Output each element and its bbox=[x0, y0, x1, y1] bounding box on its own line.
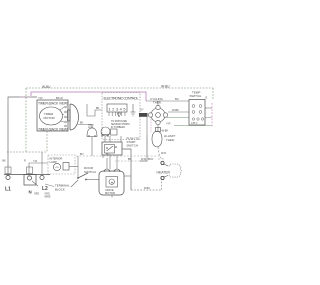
svg-text:MOTOR: MOTOR bbox=[44, 116, 56, 120]
svg-text:BK: BK bbox=[96, 107, 100, 110]
svg-text:SWITCH: SWITCH bbox=[190, 94, 202, 98]
svg-text:W-BK: W-BK bbox=[172, 108, 179, 112]
svg-text:THER.: THER. bbox=[153, 101, 162, 105]
svg-text:N: N bbox=[29, 190, 32, 195]
svg-text:SWITCH: SWITCH bbox=[84, 170, 96, 174]
svg-text:Y-R: Y-R bbox=[166, 122, 170, 126]
svg-text:BCO: BCO bbox=[148, 158, 153, 161]
svg-text:E: E bbox=[206, 96, 208, 100]
svg-text:IN TUMBLER: IN TUMBLER bbox=[111, 127, 125, 129]
svg-text:TIMER (BACK VIEW): TIMER (BACK VIEW) bbox=[38, 128, 68, 132]
svg-text:GRD: GRD bbox=[45, 194, 50, 196]
svg-text:LAMP: LAMP bbox=[50, 160, 58, 164]
svg-text:W-BK: W-BK bbox=[162, 129, 169, 133]
svg-text:BK: BK bbox=[128, 158, 132, 161]
svg-text:R-BU: R-BU bbox=[144, 187, 150, 190]
svg-text:BU: BU bbox=[175, 97, 179, 101]
svg-text:BLOCK: BLOCK bbox=[55, 187, 65, 191]
svg-text:BK: BK bbox=[80, 122, 84, 125]
svg-text:ELECTRONIC CONTROL: ELECTRONIC CONTROL bbox=[104, 97, 139, 101]
svg-text:GRD: GRD bbox=[34, 194, 39, 196]
svg-text:Y-R: Y-R bbox=[33, 160, 37, 163]
svg-text:1 2 3 4 5: 1 2 3 4 5 bbox=[109, 108, 126, 112]
svg-text:L1: L1 bbox=[5, 187, 11, 193]
svg-text:SENSOR STRIPS: SENSOR STRIPS bbox=[111, 124, 130, 126]
svg-text:W-BU: W-BU bbox=[161, 85, 170, 89]
svg-text:BK: BK bbox=[3, 160, 7, 163]
svg-text:R-W: R-W bbox=[141, 158, 147, 161]
svg-text:R: R bbox=[24, 160, 26, 163]
svg-text:SWITCH: SWITCH bbox=[127, 144, 138, 148]
svg-text:HEATER: HEATER bbox=[157, 171, 171, 175]
svg-text:Y-R: Y-R bbox=[38, 96, 43, 100]
svg-text:WDG: WDG bbox=[88, 127, 94, 129]
svg-text:WIRE: WIRE bbox=[45, 196, 51, 198]
svg-text:L2: L2 bbox=[42, 186, 48, 192]
svg-text:GY: GY bbox=[140, 109, 144, 112]
svg-text:W-R: W-R bbox=[161, 152, 166, 155]
svg-text:BU: BU bbox=[106, 153, 110, 156]
svg-text:BU: BU bbox=[80, 153, 84, 156]
svg-text:W-BU: W-BU bbox=[42, 85, 51, 89]
svg-text:A B C: A B C bbox=[191, 122, 198, 125]
svg-text:TIMER (BACK VIEW): TIMER (BACK VIEW) bbox=[38, 102, 68, 106]
svg-text:BK-R: BK-R bbox=[56, 96, 63, 100]
svg-text:TO MOISTURE: TO MOISTURE bbox=[111, 121, 127, 123]
svg-text:THER.: THER. bbox=[166, 138, 175, 142]
svg-text:MOTOR: MOTOR bbox=[105, 191, 115, 195]
